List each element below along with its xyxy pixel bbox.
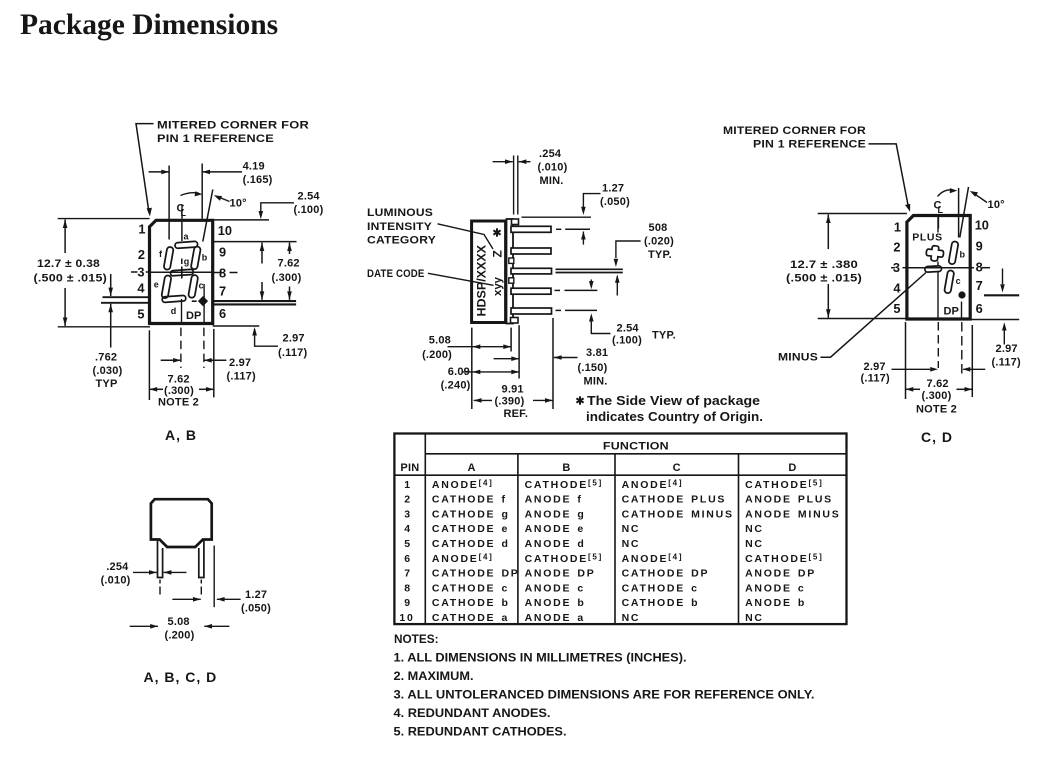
dimension .762 down arrow: [110, 274, 112, 296]
svg-text:ANODE f: ANODE f: [525, 494, 583, 506]
svg-text:CATHODE g: CATHODE g: [432, 508, 510, 520]
side view body outline: [472, 221, 506, 323]
angle arc arrow CD: [938, 190, 952, 197]
mid line right stub CD: [970, 267, 974, 269]
svg-text:ANODE MINUS: ANODE MINUS: [745, 508, 840, 520]
table vertical line A|B: [517, 454, 519, 624]
side view mounting plate: [507, 219, 514, 324]
svg-text:7: 7: [404, 568, 412, 580]
svg-text:8: 8: [404, 582, 412, 594]
table FUNCTION underline: [425, 453, 846, 455]
vertical reference line V1 for 4.19: [168, 166, 170, 240]
svg-text:2.97: 2.97: [283, 333, 305, 345]
lead line right CD: [984, 294, 1019, 296]
package outline C,D with mitered corner: [907, 216, 970, 320]
table outer border: [394, 434, 846, 625]
side view note asterisk: [576, 396, 583, 404]
extension line A below body: [471, 328, 473, 409]
vertical reference line CD: [958, 188, 960, 238]
svg-text:MIN.: MIN.: [584, 376, 608, 388]
segment c CD: [944, 270, 954, 294]
pin 3 long lead double line: [556, 268, 623, 270]
dimension 2.54 TYP up arrow and leader: [591, 322, 610, 334]
svg-text:(.200): (.200): [422, 349, 452, 361]
pin 1 side: [511, 226, 551, 232]
svg-text:HDSP/XXXX: HDSP/XXXX: [477, 245, 489, 317]
svg-text:(.010): (.010): [538, 162, 568, 174]
country of origin asterisk: [493, 228, 500, 236]
svg-text:6: 6: [404, 553, 412, 565]
svg-text:TYP: TYP: [96, 378, 118, 390]
svg-text:6.09: 6.09: [448, 366, 470, 378]
table column C cells: [622, 478, 734, 624]
svg-text:(.300): (.300): [922, 390, 952, 402]
svg-text:xyy: xyy: [492, 276, 504, 296]
svg-text:7: 7: [976, 278, 983, 293]
dimension 2.54 TYP down arrow: [590, 280, 592, 283]
svg-text:10°: 10°: [988, 199, 1005, 211]
dimension 7.62 bottom arrows and (.300): [149, 387, 157, 392]
centerline tick above g: [181, 259, 183, 265]
profile right pin: [199, 541, 204, 578]
profile body outline: [151, 499, 212, 547]
svg-text:NC: NC: [745, 523, 764, 535]
svg-text:ANODE[4]: ANODE[4]: [622, 478, 684, 491]
svg-text:PIN 1 REFERENCE: PIN 1 REFERENCE: [157, 133, 274, 145]
svg-text:508: 508: [649, 222, 668, 234]
dimension .254 arrows: [493, 161, 513, 163]
svg-text:ANODE[4]: ANODE[4]: [622, 552, 684, 565]
dimension 12.7 bottom extension line: [58, 326, 150, 328]
svg-text:4: 4: [137, 280, 145, 295]
svg-text:The Side View of package: The Side View of package: [587, 393, 760, 408]
svg-text:(.300): (.300): [164, 385, 194, 397]
up arrow onto bottom ext CD: [1003, 331, 1005, 345]
svg-text:CATHODE b: CATHODE b: [622, 597, 700, 609]
dimension 12.7 CD bottom extension line: [818, 318, 907, 320]
svg-text:4.19: 4.19: [243, 161, 265, 173]
svg-text:5.08: 5.08: [168, 616, 190, 628]
plate bottom tab: [511, 318, 519, 324]
table column B cells: [525, 478, 603, 624]
centerline segment below package top: [181, 219, 183, 241]
svg-text:MITERED CORNER FOR: MITERED CORNER FOR: [157, 120, 309, 132]
svg-text:CATHODE e: CATHODE e: [432, 523, 509, 535]
segment c: [188, 275, 198, 299]
mitered corner leader line: [136, 124, 154, 213]
plate notch between pins 2-3: [509, 258, 514, 263]
svg-text:PIN 1 REFERENCE: PIN 1 REFERENCE: [753, 139, 866, 151]
horizontal mid line through package (pin3/8): [150, 271, 213, 273]
svg-text:CATHODE c: CATHODE c: [432, 582, 509, 594]
svg-text:ANODE c: ANODE c: [745, 582, 805, 594]
centerline cross inside segment g: [181, 267, 183, 279]
centerline segment between d and DP: [181, 299, 183, 323]
dimension 12.7 vertical line lower: [64, 288, 66, 326]
segment e: [161, 275, 171, 299]
svg-text:ANODE d: ANODE d: [525, 538, 586, 550]
dimension 508 leader and down arrow: [616, 241, 641, 258]
table vertical line B|C: [614, 454, 616, 624]
svg-text:c: c: [956, 276, 961, 286]
plus segment outline: [926, 245, 945, 262]
svg-text:(.500 ± .015): (.500 ± .015): [34, 273, 108, 285]
MINUS leader line: [821, 273, 927, 358]
svg-text:.762: .762: [95, 352, 117, 364]
svg-text:CATHODE a: CATHODE a: [432, 612, 509, 624]
svg-text:ANODE a: ANODE a: [525, 612, 585, 624]
centerline dashed below package: [180, 328, 182, 368]
svg-text:(.390): (.390): [495, 396, 525, 408]
plus/minus centerline inside package CD: [937, 216, 939, 233]
svg-text:2.54: 2.54: [298, 191, 321, 203]
svg-text:3: 3: [404, 508, 412, 520]
right pin dashed centerline: [200, 580, 202, 598]
svg-text:L: L: [938, 205, 944, 215]
pin 4 side: [511, 288, 551, 294]
centerline symbol CL: [177, 203, 187, 219]
svg-text:.254: .254: [539, 148, 562, 160]
pin 1 dash-dot extension: [556, 228, 561, 230]
svg-text:CATHODE b: CATHODE b: [432, 597, 510, 609]
svg-text:NOTE 2: NOTE 2: [916, 404, 957, 416]
pin 3 side: [511, 268, 552, 274]
svg-text:MIN.: MIN.: [540, 175, 564, 187]
dimension 12.7 CD vertical upper: [827, 215, 829, 250]
svg-text:9: 9: [404, 597, 412, 609]
DP column dashed below package: [203, 328, 205, 368]
profile left pin: [158, 541, 163, 578]
DP dot CD: [958, 291, 965, 298]
dimension .254 extension lines: [513, 156, 515, 215]
svg-text:D: D: [788, 462, 796, 474]
mid line left stub: [131, 271, 138, 273]
segment b CD: [948, 241, 958, 265]
svg-text:C, D: C, D: [921, 429, 953, 445]
dimension .254 profile arrows: [133, 571, 157, 573]
svg-text:6: 6: [219, 306, 226, 321]
package left edge extension below: [148, 330, 150, 400]
svg-text:(.200): (.200): [165, 630, 195, 642]
svg-text:(.117): (.117): [278, 347, 307, 359]
svg-text:B: B: [562, 462, 570, 474]
DP diamond: [198, 296, 208, 306]
svg-text:CATHODE c: CATHODE c: [622, 582, 699, 594]
svg-text:4: 4: [404, 523, 412, 535]
svg-text:ANODE DP: ANODE DP: [745, 568, 816, 580]
left pin dashed centerline: [159, 580, 161, 598]
centerline dashed below package CD: [937, 322, 939, 368]
svg-text:1.27: 1.27: [602, 183, 624, 195]
dimension 2.97 lower right leader: [255, 330, 278, 347]
dimension 1.27 up arrow: [582, 232, 584, 245]
dimension 3.81 arrow: [554, 357, 578, 359]
svg-text:(.117): (.117): [227, 371, 256, 383]
dimension 2.54 leader: [261, 203, 294, 216]
pin 4 dash-dot extension: [555, 289, 561, 291]
svg-text:(.010): (.010): [101, 575, 131, 587]
svg-text:3. ALL UNTOLERANCED DIMENSIONS: 3. ALL UNTOLERANCED DIMENSIONS ARE FOR R…: [394, 690, 815, 702]
segment b: [191, 246, 201, 270]
horizontal mid line through package CD: [907, 267, 970, 269]
svg-text:5.08: 5.08: [429, 335, 451, 347]
svg-text:7.62: 7.62: [927, 378, 949, 390]
pin 2 side: [511, 248, 551, 254]
svg-text:1. ALL DIMENSIONS IN MILLIMETR: 1. ALL DIMENSIONS IN MILLIMETRES (INCHES…: [394, 653, 687, 665]
dimension 5.08 line and arrows: [448, 346, 512, 348]
dimension 6.09 line and arrows: [462, 371, 519, 373]
DP column dashed below package CD: [961, 322, 963, 376]
svg-text:FUNCTION: FUNCTION: [603, 440, 669, 452]
svg-text:2. MAXIMUM.: 2. MAXIMUM.: [394, 671, 474, 683]
svg-text:10: 10: [399, 612, 414, 624]
middle single arrow to line C: [494, 358, 519, 360]
svg-text:CATHODE[5]: CATHODE[5]: [745, 552, 823, 565]
DP column line inside package: [203, 284, 205, 323]
table column A cells: [432, 478, 520, 624]
svg-text:5: 5: [404, 538, 412, 550]
dimension 508 up arrow: [616, 276, 618, 296]
svg-text:b: b: [202, 253, 208, 263]
table vertical line C|D: [738, 454, 740, 624]
svg-text:3: 3: [137, 264, 144, 279]
svg-text:12.7 ± 0.38: 12.7 ± 0.38: [37, 258, 100, 270]
centerline vertical segment above package: [181, 205, 183, 219]
svg-text:REF.: REF.: [504, 408, 529, 420]
svg-text:(.100): (.100): [612, 335, 642, 347]
svg-text:NC: NC: [622, 538, 641, 550]
7-seg digit: segment a: [175, 241, 198, 248]
svg-text:8: 8: [976, 260, 983, 275]
svg-text:CATEGORY: CATEGORY: [367, 235, 437, 247]
digit top extension line right: [213, 241, 297, 243]
centerline symbol CL for C,D: [934, 200, 944, 216]
package left edge extension below CD: [905, 322, 907, 399]
dimension 12.7 CD top extension line: [818, 213, 907, 215]
svg-text:f: f: [159, 249, 163, 259]
svg-text:2.97: 2.97: [996, 343, 1018, 355]
mid line left stub CD: [891, 267, 895, 269]
svg-text:ANODE PLUS: ANODE PLUS: [745, 494, 833, 506]
dash left of DP: [192, 300, 197, 302]
dimension 1.27 profile arrows: [172, 598, 200, 600]
mid line right stub: [213, 272, 221, 274]
svg-text:(.117): (.117): [861, 373, 890, 385]
body right edge extension: [213, 546, 215, 608]
svg-text:g: g: [184, 256, 190, 266]
svg-text:INTENSITY: INTENSITY: [367, 221, 433, 233]
dimension 4.19 line left part: [149, 171, 170, 173]
svg-text:2: 2: [138, 247, 145, 262]
svg-text:ANODE g: ANODE g: [525, 508, 586, 520]
svg-text:10°: 10°: [230, 198, 247, 210]
package top right extension line: [213, 219, 269, 221]
svg-text:NOTES:: NOTES:: [394, 634, 439, 646]
svg-text:NC: NC: [622, 523, 641, 535]
svg-text:e: e: [154, 280, 159, 290]
pin 5 side: [511, 308, 552, 314]
svg-text:NC: NC: [745, 538, 764, 550]
svg-text:ANODE e: ANODE e: [525, 523, 585, 535]
svg-text:A, B, C, D: A, B, C, D: [144, 669, 218, 685]
svg-text:1: 1: [894, 220, 901, 235]
svg-text:(.050): (.050): [241, 603, 271, 615]
svg-text:a: a: [184, 232, 190, 242]
segment f: [163, 247, 173, 271]
mitered corner leader line C,D: [869, 144, 909, 208]
dimension 2.97 left CD arrow: [892, 368, 931, 370]
plate notch between pins 3-4: [509, 278, 514, 283]
svg-text:CATHODE f: CATHODE f: [432, 494, 507, 506]
svg-text:MITERED CORNER FOR: MITERED CORNER FOR: [723, 125, 866, 137]
svg-text:Z: Z: [491, 250, 505, 257]
svg-text:2: 2: [893, 240, 900, 255]
extension line C below pins: [518, 325, 520, 378]
svg-text:indicates Country of Origin.: indicates Country of Origin.: [586, 409, 763, 424]
luminous intensity leader line: [438, 224, 494, 249]
svg-text:LUMINOUS: LUMINOUS: [367, 207, 433, 219]
svg-text:(.117): (.117): [992, 357, 1021, 369]
right lead double line: [213, 300, 296, 302]
svg-text:1.27: 1.27: [245, 589, 267, 601]
svg-text:(.240): (.240): [441, 380, 471, 392]
svg-text:C: C: [673, 462, 681, 474]
svg-text:.254: .254: [106, 561, 129, 573]
pin 5 dash-dot extension: [556, 309, 562, 311]
svg-text:PLUS: PLUS: [912, 232, 942, 244]
svg-text:ANODE[4]: ANODE[4]: [432, 552, 494, 565]
dimension .762 up arrow: [110, 304, 112, 348]
table vertical line PIN: [424, 434, 426, 625]
svg-text:1: 1: [138, 222, 145, 237]
10 degree slant line: [203, 190, 213, 242]
vertical reference line V3 (DP column) above package: [201, 164, 203, 219]
svg-text:10: 10: [218, 223, 232, 238]
svg-text:10: 10: [975, 218, 989, 233]
svg-text:1: 1: [404, 479, 412, 491]
angle arc arrow from centerline: [181, 193, 199, 196]
svg-text:9: 9: [219, 245, 226, 260]
svg-text:c: c: [199, 280, 204, 290]
10 degree slant line CD: [960, 187, 969, 238]
dimension 7.62 right arrows at x=262: [261, 243, 263, 264]
svg-text:4: 4: [893, 281, 901, 296]
centerline vertical above package CD: [937, 217, 939, 229]
svg-text:PIN: PIN: [400, 462, 419, 474]
svg-text:(.500 ± .015): (.500 ± .015): [786, 273, 862, 285]
mitered corner leader arrowhead: [147, 208, 152, 217]
svg-text:ANODE c: ANODE c: [525, 582, 585, 594]
segment g: [170, 269, 193, 276]
svg-text:9.91: 9.91: [502, 384, 524, 396]
down arrow onto lead line CD: [1002, 269, 1004, 285]
svg-text:CATHODE[5]: CATHODE[5]: [525, 478, 603, 491]
svg-text:4. REDUNDANT ANODES.: 4. REDUNDANT ANODES.: [394, 708, 551, 720]
dimension 7.62 right arrows at x=289.5: [289, 243, 291, 254]
svg-text:(.100): (.100): [294, 204, 324, 216]
svg-text:A: A: [468, 462, 476, 474]
table header underline: [394, 474, 846, 476]
svg-text:(.020): (.020): [644, 236, 674, 248]
svg-text:A, B: A, B: [165, 427, 197, 443]
svg-text:d: d: [171, 306, 177, 316]
svg-text:TYP.: TYP.: [652, 330, 676, 342]
dimension 12.7 top extension line: [58, 218, 150, 220]
mitered corner leader arrowhead C,D: [905, 204, 910, 212]
svg-text:ANODE b: ANODE b: [525, 597, 586, 609]
svg-text:5: 5: [137, 307, 144, 322]
svg-text:5. REDUNDANT CATHODES.: 5. REDUNDANT CATHODES.: [394, 727, 567, 739]
svg-text:2.54: 2.54: [617, 323, 640, 335]
svg-text:(.150): (.150): [578, 362, 608, 374]
svg-text:2: 2: [404, 494, 412, 506]
svg-text:NOTE 2: NOTE 2: [158, 397, 199, 409]
dimension 1.27 leader and down arrow: [583, 194, 600, 206]
date code leader line: [428, 273, 494, 285]
package outline A,B with mitered corner: [150, 220, 213, 323]
dimension 7.62 CD arrows and (.300): [906, 387, 914, 392]
package bottom right extension CD: [970, 319, 1019, 321]
svg-text:b: b: [960, 250, 966, 260]
svg-text:CATHODE MINUS: CATHODE MINUS: [622, 508, 734, 520]
svg-text:7: 7: [219, 284, 226, 299]
10 degree pointer arrow: [219, 197, 230, 202]
svg-text:ANODE DP: ANODE DP: [525, 568, 596, 580]
svg-text:DP: DP: [944, 306, 959, 318]
package bottom right extension line: [213, 325, 260, 327]
svg-text:(.050): (.050): [600, 196, 630, 208]
dimension 2.97 inner arrows: [161, 359, 181, 361]
extension line B below plate: [510, 328, 512, 352]
svg-text:DATE CODE: DATE CODE: [367, 268, 425, 280]
svg-text:NC: NC: [622, 612, 641, 624]
svg-text:7.62: 7.62: [168, 374, 190, 386]
svg-text:Package Dimensions: Package Dimensions: [20, 9, 278, 41]
extension line D pin ends: [552, 318, 554, 409]
left lead double line: [103, 296, 150, 298]
svg-text:CATHODE[5]: CATHODE[5]: [745, 478, 823, 491]
minus segment outline: [925, 266, 942, 272]
dimension 12.7 vertical line upper: [64, 220, 66, 254]
dimension 5.08 profile arrows: [130, 625, 158, 627]
segment d: [162, 295, 186, 302]
package right edge extension below CD: [971, 325, 973, 397]
svg-text:CATHODE d: CATHODE d: [432, 538, 510, 550]
svg-text:TYP.: TYP.: [648, 249, 672, 261]
dimension 12.7 CD vertical lower: [827, 284, 829, 318]
svg-text:5: 5: [893, 301, 900, 316]
svg-text:12.7 ± .380: 12.7 ± .380: [790, 259, 858, 271]
svg-text:3.81: 3.81: [586, 347, 608, 359]
plate top extension line: [522, 216, 592, 218]
svg-text:CATHODE DP: CATHODE DP: [622, 568, 710, 580]
svg-text:(.300): (.300): [272, 272, 302, 284]
svg-text:9: 9: [976, 239, 983, 254]
dimension 9.91 line and arrows: [474, 399, 492, 401]
svg-text:7.62: 7.62: [278, 258, 300, 270]
table column D cells: [745, 478, 840, 624]
plate top tab: [512, 219, 519, 225]
svg-text:CATHODE[5]: CATHODE[5]: [525, 552, 603, 565]
10 degree pointer arrow CD: [975, 194, 988, 203]
svg-text:DP: DP: [186, 310, 201, 322]
svg-text:2.97: 2.97: [864, 361, 886, 373]
dimension 4.19 line right part: [202, 171, 242, 173]
svg-text:ANODE[4]: ANODE[4]: [432, 478, 494, 491]
DP column line CD: [961, 302, 963, 320]
package right edge extension below: [213, 329, 215, 398]
svg-text:CATHODE PLUS: CATHODE PLUS: [622, 494, 727, 506]
